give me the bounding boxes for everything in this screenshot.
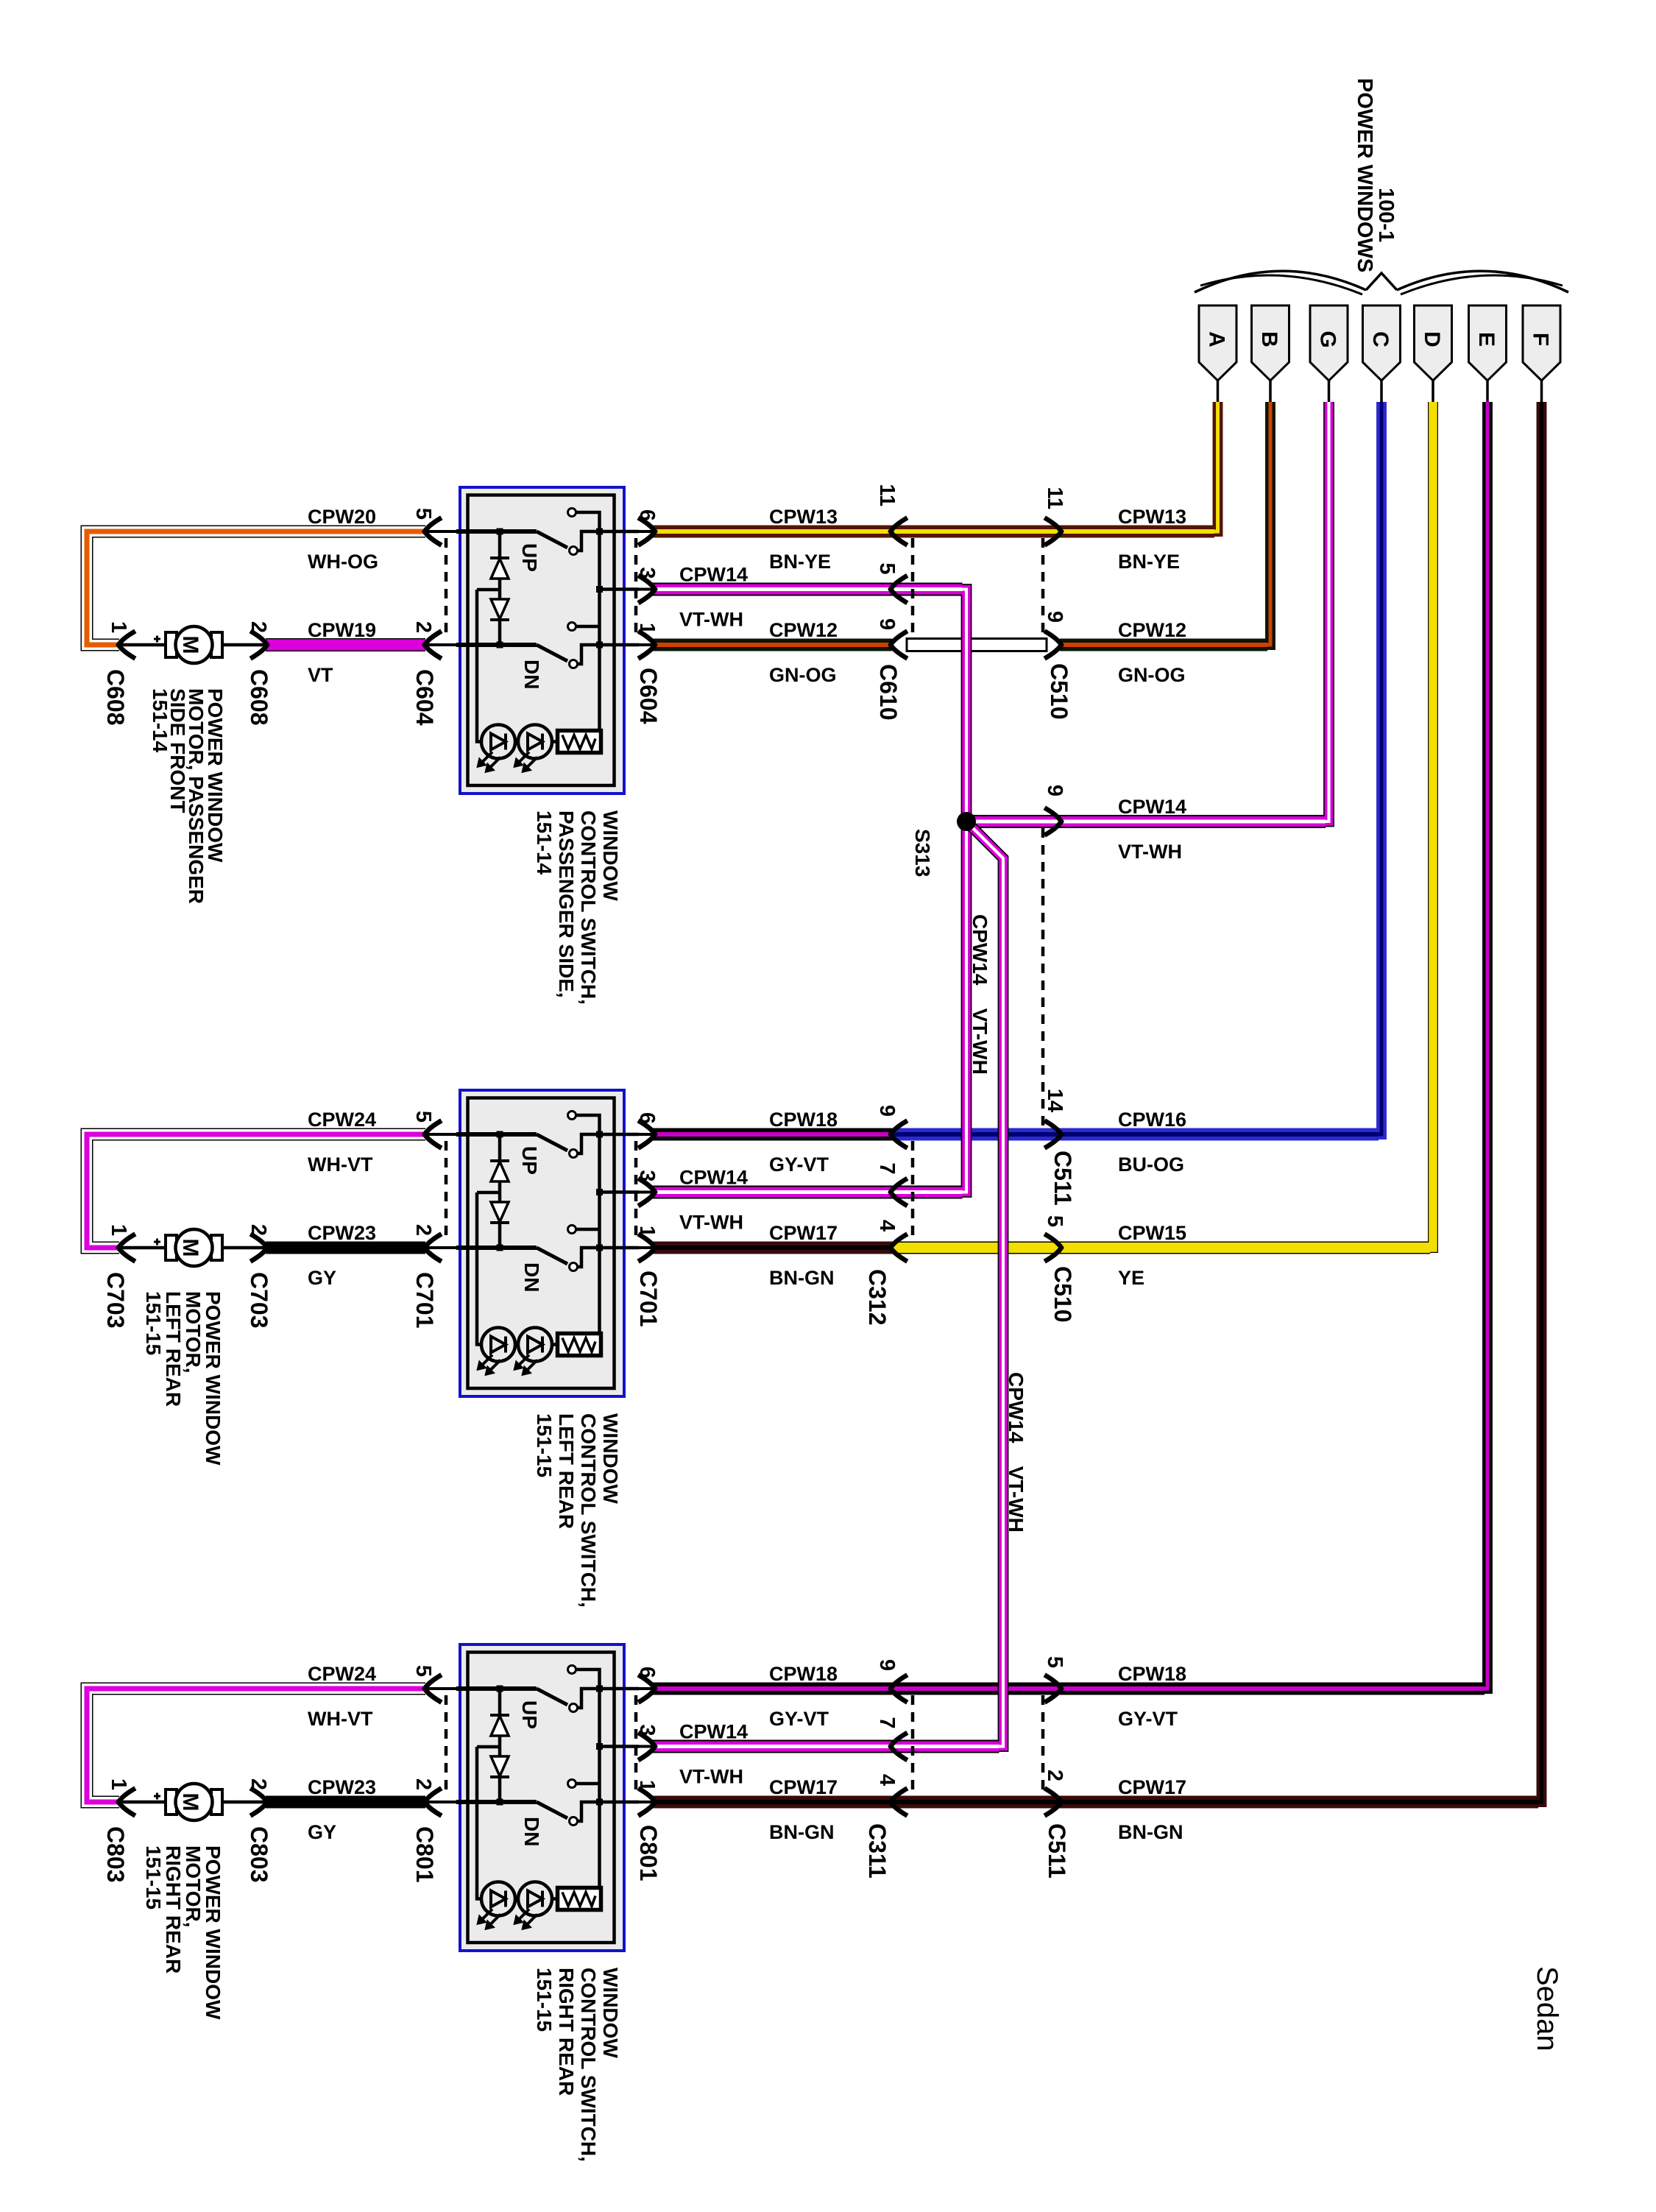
- svg-text:5: 5: [411, 508, 435, 520]
- svg-text:M: M: [178, 1793, 202, 1812]
- svg-text:GY: GY: [308, 1821, 336, 1843]
- svg-text:C803: C803: [246, 1826, 272, 1883]
- svg-text:2: 2: [411, 621, 435, 633]
- svg-text:C604: C604: [635, 668, 662, 724]
- svg-text:BN-GN: BN-GN: [769, 1821, 835, 1843]
- svg-text:14: 14: [1043, 1089, 1066, 1112]
- svg-text:11: 11: [875, 484, 899, 506]
- svg-text:5: 5: [411, 1111, 435, 1123]
- svg-text:D: D: [1420, 331, 1444, 347]
- svg-text:E: E: [1474, 332, 1498, 347]
- svg-text:C511: C511: [1050, 1151, 1076, 1206]
- svg-text:100-1: 100-1: [1374, 188, 1398, 242]
- svg-text:C801: C801: [635, 1825, 662, 1881]
- svg-text:CPW16: CPW16: [1118, 1109, 1186, 1131]
- svg-text:5: 5: [1043, 1215, 1066, 1227]
- svg-text:DN: DN: [520, 1262, 543, 1292]
- svg-text:VT-WH: VT-WH: [679, 1212, 743, 1234]
- svg-text:C511: C511: [1044, 1823, 1070, 1879]
- svg-text:151-14: 151-14: [149, 688, 171, 753]
- svg-text:VT-WH: VT-WH: [1118, 841, 1182, 863]
- svg-text:C604: C604: [411, 669, 438, 726]
- svg-text:11: 11: [1043, 487, 1066, 509]
- svg-text:C311: C311: [864, 1823, 891, 1879]
- svg-text:151-15: 151-15: [142, 1291, 165, 1355]
- svg-text:RIGHT REAR: RIGHT REAR: [555, 1968, 578, 2096]
- svg-text:BN-GN: BN-GN: [769, 1267, 835, 1289]
- svg-text:BU-OG: BU-OG: [1118, 1153, 1184, 1176]
- svg-text:CPW12: CPW12: [1118, 619, 1186, 641]
- svg-text:CPW18: CPW18: [1118, 1663, 1186, 1685]
- svg-text:CPW14: CPW14: [679, 1167, 748, 1189]
- svg-text:BN-GN: BN-GN: [1118, 1821, 1183, 1843]
- svg-text:GY-VT: GY-VT: [769, 1153, 829, 1176]
- svg-text:CPW12: CPW12: [769, 619, 838, 641]
- svg-text:C312: C312: [864, 1269, 891, 1326]
- svg-text:WINDOW: WINDOW: [599, 810, 622, 901]
- svg-text:F: F: [1529, 333, 1553, 346]
- svg-text:C803: C803: [102, 1826, 129, 1883]
- svg-text:7: 7: [875, 1162, 899, 1174]
- svg-text:GY-VT: GY-VT: [1118, 1708, 1178, 1730]
- svg-text:5: 5: [875, 562, 899, 574]
- svg-text:C701: C701: [635, 1271, 662, 1327]
- svg-text:GY: GY: [308, 1267, 336, 1289]
- svg-text:M: M: [178, 636, 202, 654]
- svg-text:GY-VT: GY-VT: [769, 1708, 829, 1730]
- svg-text:CONTROL SWITCH,: CONTROL SWITCH,: [577, 1968, 600, 2162]
- svg-text:9: 9: [875, 618, 899, 630]
- svg-text:CPW23: CPW23: [308, 1222, 376, 1244]
- svg-text:GN-OG: GN-OG: [1118, 664, 1186, 686]
- svg-text:VT: VT: [308, 664, 333, 686]
- svg-text:VT-WH: VT-WH: [679, 1766, 743, 1788]
- svg-text:M: M: [178, 1239, 202, 1257]
- svg-text:C610: C610: [875, 664, 902, 721]
- svg-text:CONTROL SWITCH,: CONTROL SWITCH,: [577, 810, 600, 1005]
- svg-text:CPW14: CPW14: [1118, 796, 1186, 818]
- svg-text:G: G: [1316, 331, 1340, 347]
- svg-text:GN-OG: GN-OG: [769, 664, 837, 686]
- svg-text:A: A: [1205, 331, 1229, 347]
- svg-text:DN: DN: [520, 660, 543, 689]
- svg-text:9: 9: [875, 1105, 899, 1117]
- svg-text:CPW17: CPW17: [769, 1776, 838, 1798]
- svg-text:C701: C701: [411, 1272, 438, 1329]
- svg-text:CPW14: CPW14: [679, 564, 748, 586]
- svg-text:VT-WH: VT-WH: [679, 609, 743, 631]
- svg-text:C703: C703: [102, 1272, 129, 1329]
- svg-text:4: 4: [875, 1774, 899, 1786]
- svg-text:BN-YE: BN-YE: [769, 551, 831, 573]
- svg-text:BN-YE: BN-YE: [1118, 551, 1180, 573]
- svg-text:2: 2: [411, 1224, 435, 1236]
- svg-text:DN: DN: [520, 1817, 543, 1846]
- svg-text:C510: C510: [1050, 1266, 1076, 1323]
- svg-text:CPW18: CPW18: [769, 1109, 838, 1131]
- svg-text:C: C: [1368, 331, 1393, 347]
- svg-text:7: 7: [875, 1717, 899, 1728]
- svg-text:UP: UP: [518, 543, 541, 572]
- svg-text:CPW13: CPW13: [769, 506, 838, 528]
- svg-text:9: 9: [875, 1659, 899, 1671]
- svg-text:CPW18: CPW18: [769, 1663, 838, 1685]
- svg-text:CPW19: CPW19: [308, 619, 376, 641]
- svg-text:2: 2: [411, 1778, 435, 1790]
- svg-text:CPW23: CPW23: [308, 1776, 376, 1798]
- svg-text:1: 1: [107, 1224, 130, 1236]
- svg-text:2: 2: [247, 1224, 270, 1236]
- svg-text:5: 5: [1043, 1656, 1066, 1668]
- svg-text:4: 4: [875, 1220, 899, 1232]
- svg-text:CPW20: CPW20: [308, 506, 376, 528]
- svg-text:CPW24: CPW24: [308, 1663, 376, 1685]
- svg-text:C608: C608: [102, 669, 129, 726]
- svg-text:WINDOW: WINDOW: [599, 1413, 622, 1504]
- svg-text:C608: C608: [246, 669, 272, 726]
- svg-text:Sedan: Sedan: [1531, 1966, 1563, 2052]
- svg-text:151-15: 151-15: [142, 1845, 165, 1909]
- svg-text:2: 2: [1043, 1770, 1066, 1781]
- svg-text:1: 1: [107, 1778, 130, 1790]
- svg-text:C703: C703: [246, 1272, 272, 1329]
- svg-text:UP: UP: [518, 1146, 541, 1175]
- svg-text:YE: YE: [1118, 1267, 1144, 1289]
- svg-text:151-15: 151-15: [533, 1968, 556, 2032]
- svg-text:WH-OG: WH-OG: [308, 551, 378, 573]
- svg-text:151-15: 151-15: [533, 1413, 556, 1477]
- svg-text:CONTROL SWITCH,: CONTROL SWITCH,: [577, 1413, 600, 1608]
- svg-text:CPW24: CPW24: [308, 1109, 376, 1131]
- svg-text:C510: C510: [1046, 663, 1072, 720]
- svg-text:CPW17: CPW17: [769, 1222, 838, 1244]
- svg-text:5: 5: [411, 1665, 435, 1677]
- svg-text:2: 2: [247, 1778, 270, 1790]
- svg-text:1: 1: [107, 621, 130, 633]
- svg-text:PASSENGER SIDE,: PASSENGER SIDE,: [555, 810, 578, 998]
- svg-text:CPW14 VT-WH: CPW14 VT-WH: [1005, 1372, 1027, 1533]
- svg-text:9: 9: [1043, 785, 1066, 796]
- svg-text:POWER WINDOWS: POWER WINDOWS: [1353, 78, 1376, 272]
- svg-text:CPW15: CPW15: [1118, 1222, 1186, 1244]
- svg-text:9: 9: [1043, 611, 1066, 623]
- svg-text:CPW14: CPW14: [679, 1721, 748, 1743]
- svg-text:B: B: [1257, 331, 1281, 347]
- svg-text:CPW13: CPW13: [1118, 506, 1186, 528]
- svg-text:S313: S313: [911, 829, 934, 877]
- svg-text:WINDOW: WINDOW: [599, 1968, 622, 2058]
- svg-text:CPW14 VT-WH: CPW14 VT-WH: [969, 914, 991, 1075]
- svg-text:WH-VT: WH-VT: [308, 1708, 373, 1730]
- svg-text:C801: C801: [411, 1826, 438, 1883]
- svg-text:151-14: 151-14: [533, 810, 556, 875]
- svg-text:WH-VT: WH-VT: [308, 1153, 373, 1176]
- svg-text:CPW17: CPW17: [1118, 1776, 1186, 1798]
- svg-text:UP: UP: [518, 1700, 541, 1729]
- svg-text:LEFT REAR: LEFT REAR: [555, 1413, 578, 1529]
- svg-text:2: 2: [247, 621, 270, 633]
